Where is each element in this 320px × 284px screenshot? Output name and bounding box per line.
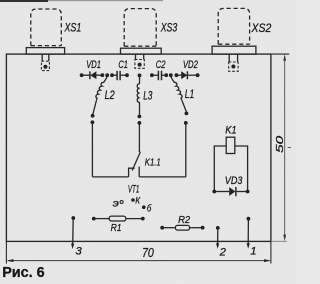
diode VD3 triangle xyxy=(229,187,235,196)
diode VD2 triangle xyxy=(181,71,187,79)
node D xyxy=(125,73,129,77)
wire C1 to node D xyxy=(121,74,127,76)
wire node C to C1 xyxy=(112,74,117,76)
node B xyxy=(101,73,105,77)
wire node A to VD1 xyxy=(82,74,90,76)
node A xyxy=(80,73,84,77)
wire L3 leg down xyxy=(138,123,140,152)
connector XS2 body xyxy=(218,8,249,44)
diode VD2 cathode bar xyxy=(186,71,188,79)
board outline xyxy=(6,54,271,241)
connector XS2 flange xyxy=(212,46,256,54)
node L3 top xyxy=(138,74,142,78)
capacitor C1 plates xyxy=(117,71,120,80)
wire VD1 to node B xyxy=(96,74,102,76)
extension line left-bottom xyxy=(5,241,7,263)
diode VD1 cathode bar xyxy=(89,71,91,79)
wire bottom left segment xyxy=(92,176,128,178)
dimension 70 line xyxy=(7,259,271,262)
connector XS2 pad box xyxy=(229,62,238,71)
transistor VT1 emitter hole xyxy=(120,201,123,204)
diode VD3 cathode bar xyxy=(235,187,237,196)
connector XS1 legs xyxy=(42,54,49,61)
pin 2 pad xyxy=(216,226,220,230)
inductor L2 xyxy=(93,76,108,115)
relay K1 coil box xyxy=(226,137,235,153)
resistor R2 right wire xyxy=(190,227,203,229)
pin 1 arrowhead xyxy=(247,243,250,248)
node R2 left xyxy=(160,226,164,230)
extension line top-right xyxy=(271,53,289,55)
resistor R1 right wire xyxy=(126,218,143,220)
diode VD1 triangle xyxy=(90,71,96,79)
node G xyxy=(175,73,179,77)
connector XS1 pad box xyxy=(41,61,49,70)
node K1 loop right xyxy=(246,190,250,194)
node L3 wire top xyxy=(138,121,142,125)
resistor R1 left wire xyxy=(94,218,109,220)
contact K1.1 right stub xyxy=(138,167,140,177)
node R1 right xyxy=(141,217,145,221)
node L1 top xyxy=(169,73,173,77)
pin 3 pad xyxy=(71,216,75,220)
extension line right-bottom xyxy=(270,241,272,263)
connector XS3 body xyxy=(124,9,156,47)
inductor L3 xyxy=(137,77,139,114)
node L2 wire top xyxy=(91,120,95,124)
wire node G to VD2 xyxy=(176,74,181,76)
contact K1.1 lever xyxy=(132,152,140,171)
connector XS3 pad box xyxy=(135,60,144,69)
wire L2 leg down xyxy=(91,122,93,177)
wire C2 to node F xyxy=(162,74,166,76)
extension line bottom-right horizontal xyxy=(271,240,287,242)
connector XS1 pad dot xyxy=(43,65,47,69)
node C xyxy=(110,73,114,77)
connector XS3 pad dot xyxy=(138,63,142,67)
node L2 bottom xyxy=(91,114,95,118)
wire bottom right segment xyxy=(139,176,186,178)
inductor L1 xyxy=(171,76,187,111)
transistor VT1 collector pad xyxy=(131,198,135,202)
node L1 wire top xyxy=(184,121,188,125)
pin 1 lead xyxy=(247,219,249,245)
connector XS3 flange xyxy=(121,48,162,54)
pin 3 arrowhead xyxy=(71,244,74,249)
node L2 top xyxy=(105,73,109,77)
wire VD3 left xyxy=(214,191,229,193)
pin 2 lead xyxy=(217,228,219,245)
node E xyxy=(150,73,154,77)
node H xyxy=(196,73,200,77)
transistor VT1 base pad xyxy=(142,205,146,209)
contact K1.1 left stub xyxy=(129,168,135,177)
connector XS3 legs xyxy=(136,54,144,59)
relay K1 right wire xyxy=(235,146,248,192)
paper grain xyxy=(0,0,1,1)
resistor R2 left wire xyxy=(162,227,175,229)
wire node E to C2 xyxy=(152,74,158,76)
resistor R1 body xyxy=(109,216,126,221)
node K1 loop left xyxy=(212,190,216,194)
wire L1 leg down xyxy=(185,123,187,177)
connector XS2 legs xyxy=(229,54,237,62)
scan border top xyxy=(0,0,48,2)
node R1 left xyxy=(92,217,96,221)
capacitor C2 plates xyxy=(158,71,161,81)
pin 1 pad xyxy=(247,217,251,221)
pin 2 arrowhead xyxy=(216,243,219,248)
connector XS2 pad dot xyxy=(231,65,235,69)
node R2 right xyxy=(201,226,205,230)
wire VD3 right xyxy=(237,191,248,193)
node L1 bottom xyxy=(185,112,189,116)
dimension 50 line xyxy=(283,54,291,241)
connector XS1 body xyxy=(31,9,62,46)
resistor R2 body xyxy=(175,225,189,230)
pin 3 lead xyxy=(72,218,75,245)
relay K1 left wire xyxy=(214,146,226,192)
node L3 bottom xyxy=(138,115,142,119)
node F xyxy=(164,73,168,77)
connector XS1 flange xyxy=(26,48,64,55)
wire VD2 to node H xyxy=(188,74,197,76)
